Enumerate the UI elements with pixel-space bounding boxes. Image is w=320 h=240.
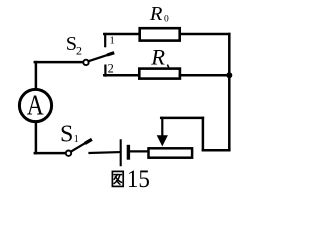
switch S1 pivot contact circle <box>66 151 71 156</box>
svg-text:A: A <box>27 89 44 120</box>
wire: from S1 fixed contact right to battery positive plate <box>90 151 120 154</box>
resistor Rx subscript mark <box>168 65 170 68</box>
ammeter A1 circle <box>19 89 51 121</box>
resistor R0 box <box>140 28 180 40</box>
switch S2 lever blade <box>89 53 113 61</box>
rheostat RP1 slider arrow stem <box>161 118 163 137</box>
switch S1 lever tip <box>86 140 90 142</box>
wire: R0 row from contact 1 to R0 box <box>104 33 140 36</box>
svg-text:R: R <box>149 3 163 25</box>
svg-text:S: S <box>60 121 73 147</box>
wire: left vertical from corner down to ammeter top <box>35 62 38 89</box>
svg-text:0: 0 <box>164 15 169 25</box>
svg-text:2: 2 <box>108 61 114 75</box>
rheostat RP1 body box <box>149 148 193 157</box>
wire: Rx row from contact 2 to Rx box <box>104 74 140 77</box>
wire: left vertical from ammeter bottom down to bottom-left corner <box>35 122 38 153</box>
svg-text:2: 2 <box>76 43 82 57</box>
svg-text:1: 1 <box>74 134 79 145</box>
battery BT1 short thick plate (negative) <box>127 147 130 159</box>
wire: Rx box right to junction on main right wire <box>180 74 230 77</box>
selector contact 1 post <box>104 34 106 46</box>
battery BT1 long plate (positive) <box>120 140 122 165</box>
switch S1 lever blade <box>71 140 90 151</box>
switch S2 pivot contact circle <box>83 60 88 65</box>
wire: vertical drop right of rheostat <box>202 118 205 150</box>
rheostat RP1 slider arrowhead <box>157 135 168 146</box>
wire: R0 box right to top-right corner <box>180 33 229 36</box>
svg-text:15: 15 <box>127 166 150 193</box>
selector contact 2 post <box>104 66 106 76</box>
wire: slider horizontal going right <box>161 117 203 120</box>
wire: bottom-left horizontal to switch S1 pivot <box>35 152 66 155</box>
resistor Rx box <box>139 69 180 79</box>
caption glyph 图 (figure) drawn as strokes <box>112 171 123 186</box>
wire: main right vertical <box>228 34 231 150</box>
wire: top-left horizontal from corner to switch S2 pivot <box>35 61 83 64</box>
switch S2 lever tip <box>109 53 113 54</box>
wire: bottom-right horizontal to main right wire <box>203 149 229 152</box>
wire: from battery to rheostat left terminal <box>130 150 147 152</box>
svg-text:R: R <box>150 45 165 70</box>
junction node dot on right wire <box>226 72 232 78</box>
svg-text:1: 1 <box>110 36 115 47</box>
